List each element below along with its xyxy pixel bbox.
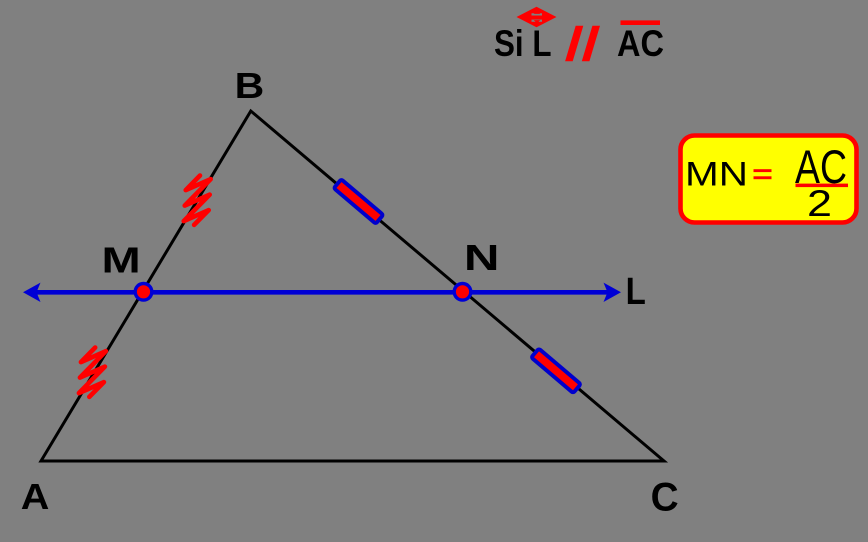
svg-text:N: N	[464, 237, 500, 278]
svg-text:Si L: Si L	[494, 23, 552, 64]
svg-text:MN: MN	[685, 156, 748, 194]
svg-text:M: M	[102, 240, 141, 281]
svg-text:C: C	[651, 476, 679, 520]
svg-text:A: A	[21, 476, 50, 517]
svg-text:L: L	[626, 271, 646, 313]
svg-text:AC: AC	[617, 23, 664, 64]
svg-text:B: B	[235, 65, 265, 106]
svg-text:2: 2	[807, 182, 832, 224]
